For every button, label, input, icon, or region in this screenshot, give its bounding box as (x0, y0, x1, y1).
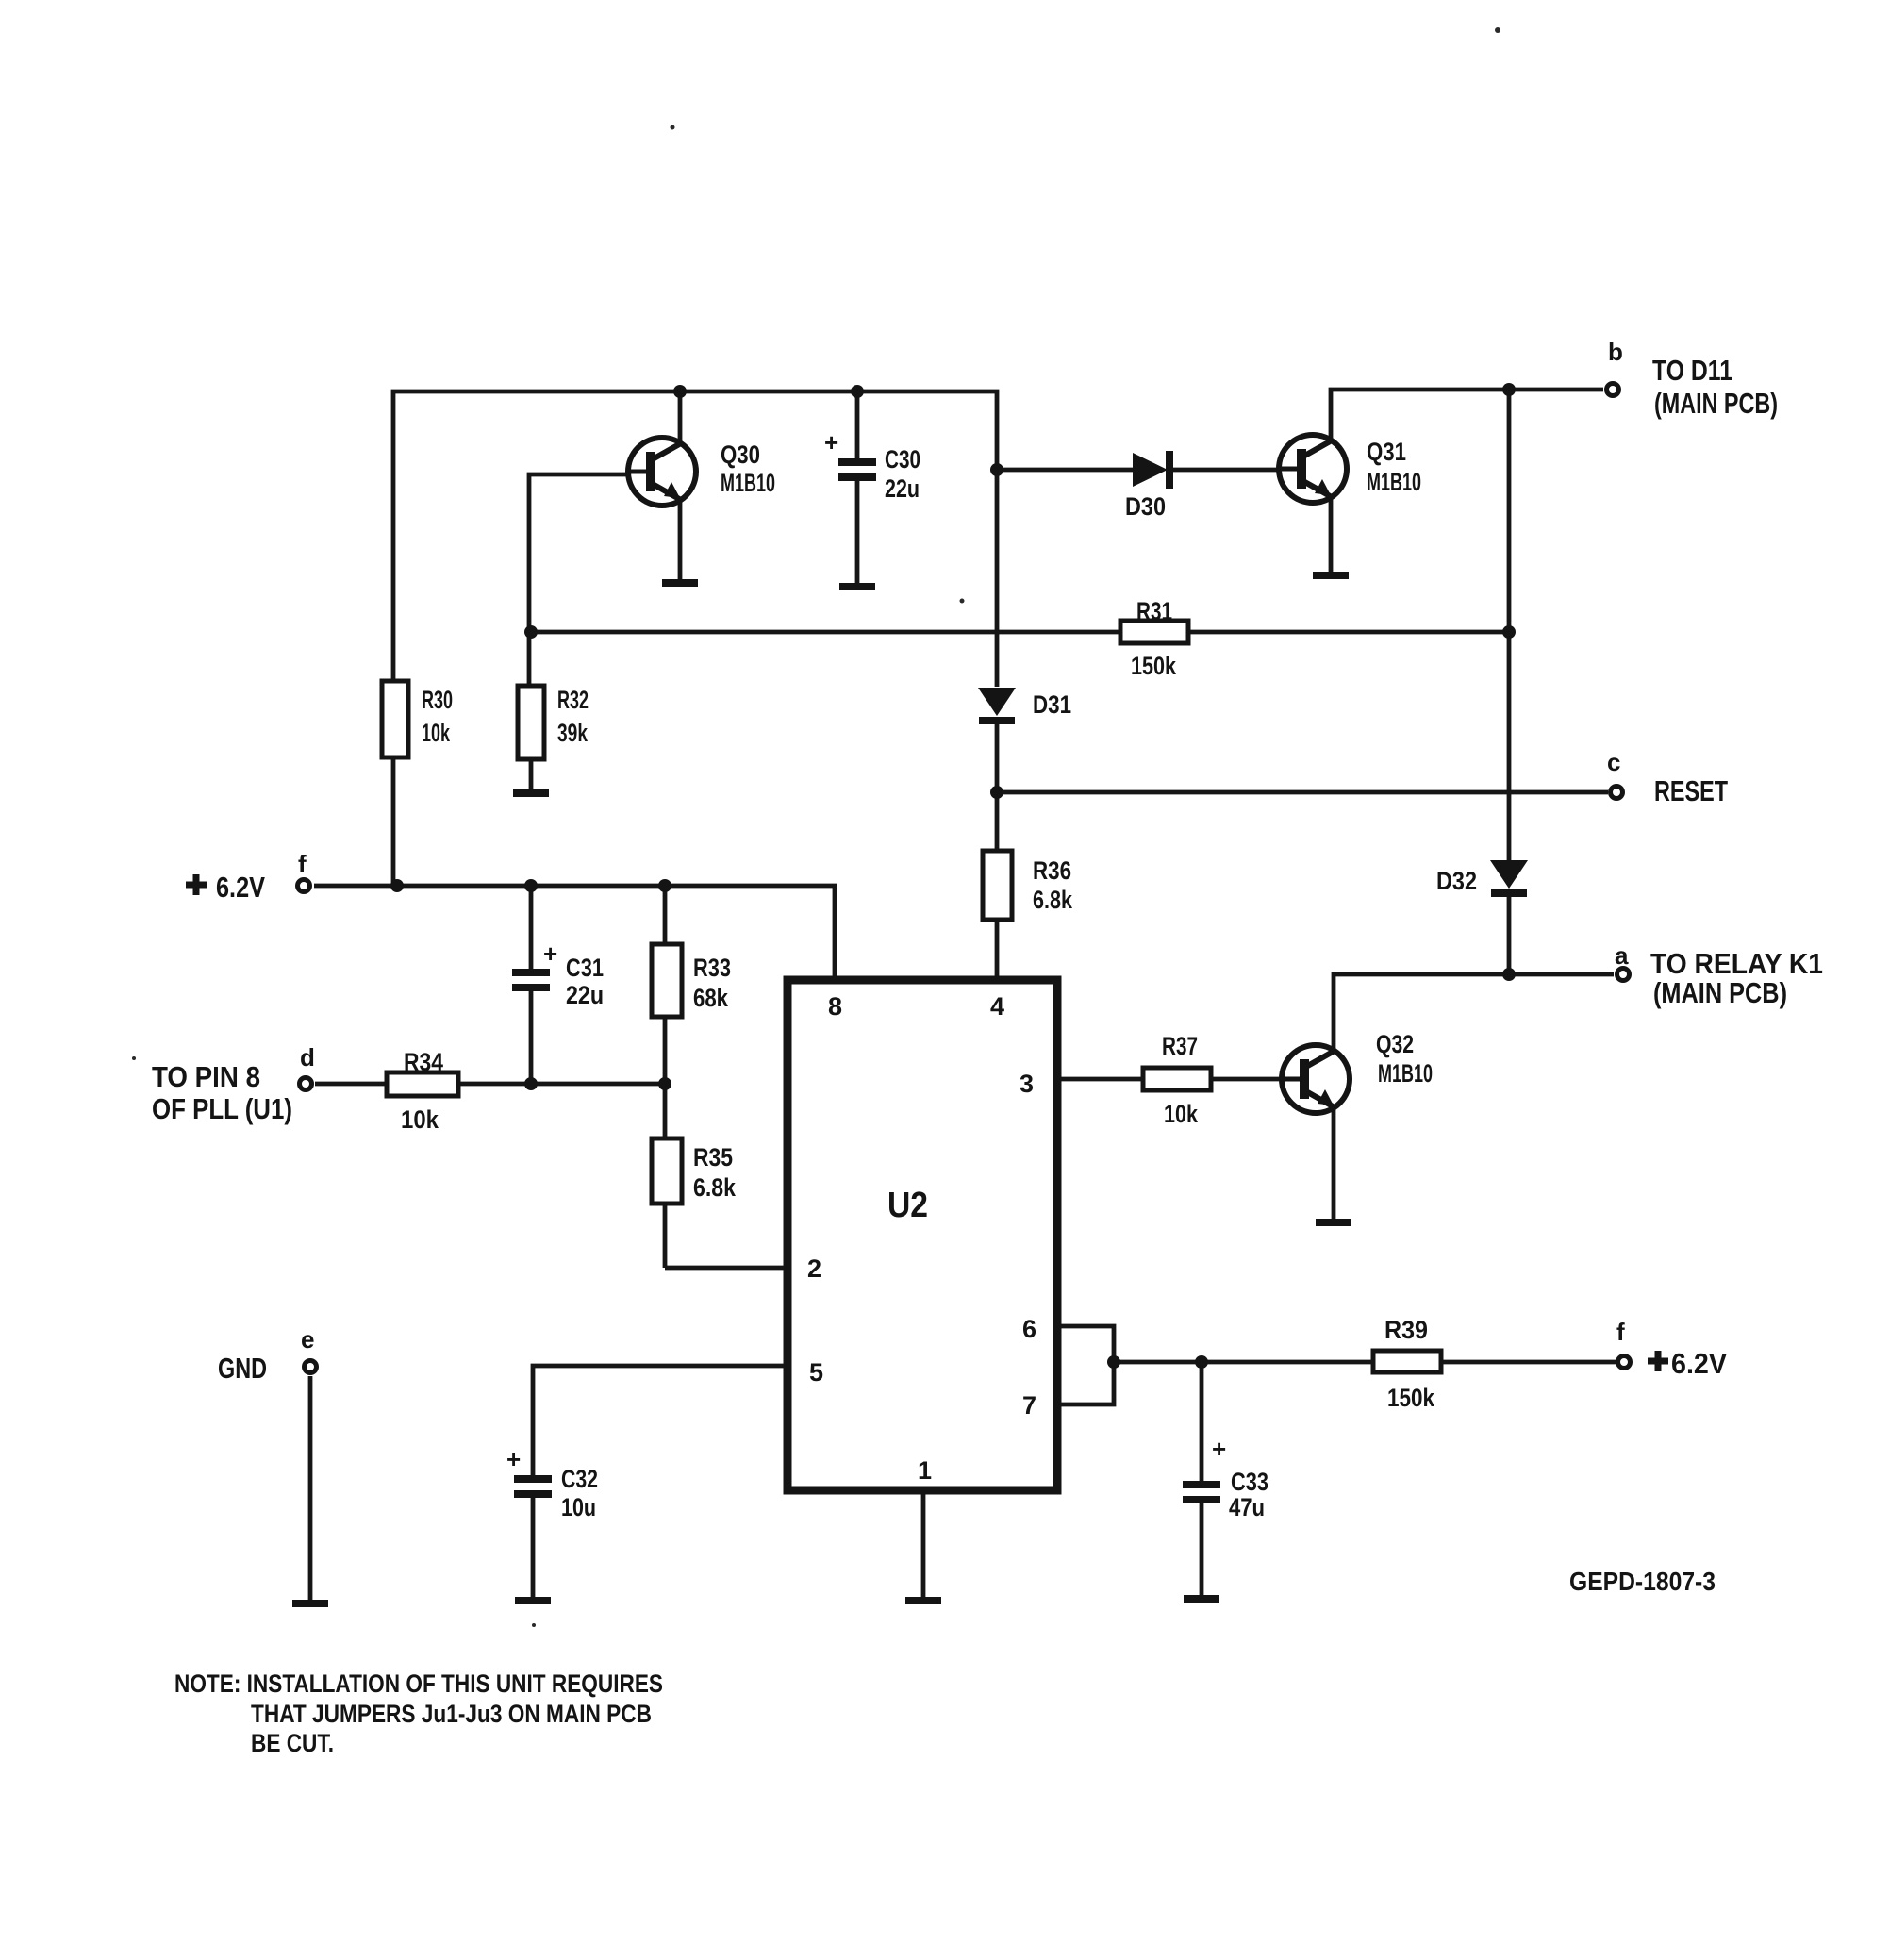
svg-text:+: + (1212, 1435, 1226, 1463)
svg-text:4: 4 (990, 992, 1004, 1021)
svg-text:e: e (301, 1325, 314, 1354)
svg-text:6.2V: 6.2V (216, 871, 265, 904)
svg-text:R30: R30 (422, 686, 453, 714)
svg-text:1: 1 (918, 1456, 932, 1485)
svg-text:22u: 22u (566, 981, 604, 1009)
svg-text:+: + (506, 1445, 521, 1473)
svg-text:R37: R37 (1162, 1032, 1198, 1060)
svg-text:THAT JUMPERS Ju1-Ju3 ON MAIN P: THAT JUMPERS Ju1-Ju3 ON MAIN PCB (251, 1700, 652, 1728)
svg-text:a: a (1615, 941, 1629, 970)
svg-text:6: 6 (1022, 1315, 1036, 1343)
svg-text:f: f (298, 850, 307, 878)
svg-text:Q31: Q31 (1367, 438, 1406, 466)
svg-text:U2: U2 (887, 1186, 928, 1225)
svg-text:C31: C31 (566, 954, 604, 982)
svg-text:OF PLL (U1): OF PLL (U1) (152, 1092, 292, 1125)
svg-text:c: c (1607, 748, 1620, 776)
svg-text:C33: C33 (1231, 1468, 1268, 1496)
svg-text:f: f (1616, 1318, 1625, 1346)
svg-text:TO PIN 8: TO PIN 8 (152, 1060, 260, 1093)
svg-text:10k: 10k (401, 1105, 439, 1134)
svg-text:10k: 10k (422, 719, 451, 747)
svg-text:R31: R31 (1136, 597, 1172, 625)
svg-text:10k: 10k (1164, 1100, 1199, 1128)
svg-text:2: 2 (807, 1254, 821, 1283)
svg-text:d: d (300, 1043, 315, 1071)
svg-text:D32: D32 (1436, 867, 1477, 895)
svg-text:47u: 47u (1229, 1493, 1265, 1521)
svg-text:R33: R33 (693, 954, 731, 982)
svg-text:68k: 68k (693, 984, 729, 1012)
svg-text:M1B10: M1B10 (1378, 1059, 1433, 1088)
svg-text:R36: R36 (1033, 856, 1071, 885)
svg-text:Q30: Q30 (721, 440, 760, 469)
svg-text:TO D11: TO D11 (1652, 354, 1732, 387)
svg-text:C32: C32 (561, 1465, 598, 1493)
svg-text:6.8k: 6.8k (1033, 886, 1073, 914)
svg-text:GEPD-1807-3: GEPD-1807-3 (1569, 1567, 1716, 1596)
svg-text:10u: 10u (561, 1493, 596, 1521)
svg-text:+: + (543, 939, 557, 968)
svg-text:+: + (824, 428, 838, 457)
svg-text:8: 8 (828, 992, 842, 1021)
svg-text:R34: R34 (404, 1048, 443, 1076)
svg-text:3: 3 (1020, 1070, 1034, 1098)
svg-text:BE CUT.: BE CUT. (251, 1729, 334, 1757)
svg-text:b: b (1608, 338, 1623, 366)
svg-text:39k: 39k (557, 719, 589, 747)
svg-text:D31: D31 (1033, 690, 1071, 719)
svg-text:TO RELAY K1: TO RELAY K1 (1650, 947, 1823, 980)
svg-text:R35: R35 (693, 1143, 733, 1171)
svg-text:6.2V: 6.2V (1671, 1347, 1727, 1380)
svg-text:R32: R32 (557, 686, 589, 714)
svg-text:NOTE: INSTALLATION OF THIS UNI: NOTE: INSTALLATION OF THIS UNIT REQUIRES (174, 1669, 663, 1698)
svg-text:6.8k: 6.8k (693, 1173, 737, 1202)
svg-text:C30: C30 (885, 445, 920, 473)
svg-text:(MAIN PCB): (MAIN PCB) (1653, 976, 1787, 1009)
svg-text:150k: 150k (1131, 652, 1177, 680)
svg-text:5: 5 (809, 1358, 823, 1387)
svg-text:M1B10: M1B10 (721, 469, 775, 497)
svg-text:GND: GND (218, 1352, 267, 1385)
svg-text:22u: 22u (885, 474, 920, 503)
svg-text:Q32: Q32 (1376, 1030, 1414, 1058)
svg-text:M1B10: M1B10 (1367, 468, 1421, 496)
svg-text:R39: R39 (1384, 1316, 1428, 1344)
svg-text:RESET: RESET (1654, 774, 1728, 807)
svg-text:7: 7 (1022, 1391, 1036, 1420)
svg-text:150k: 150k (1387, 1384, 1435, 1412)
svg-text:(MAIN PCB): (MAIN PCB) (1654, 387, 1778, 420)
svg-text:D30: D30 (1125, 492, 1166, 521)
